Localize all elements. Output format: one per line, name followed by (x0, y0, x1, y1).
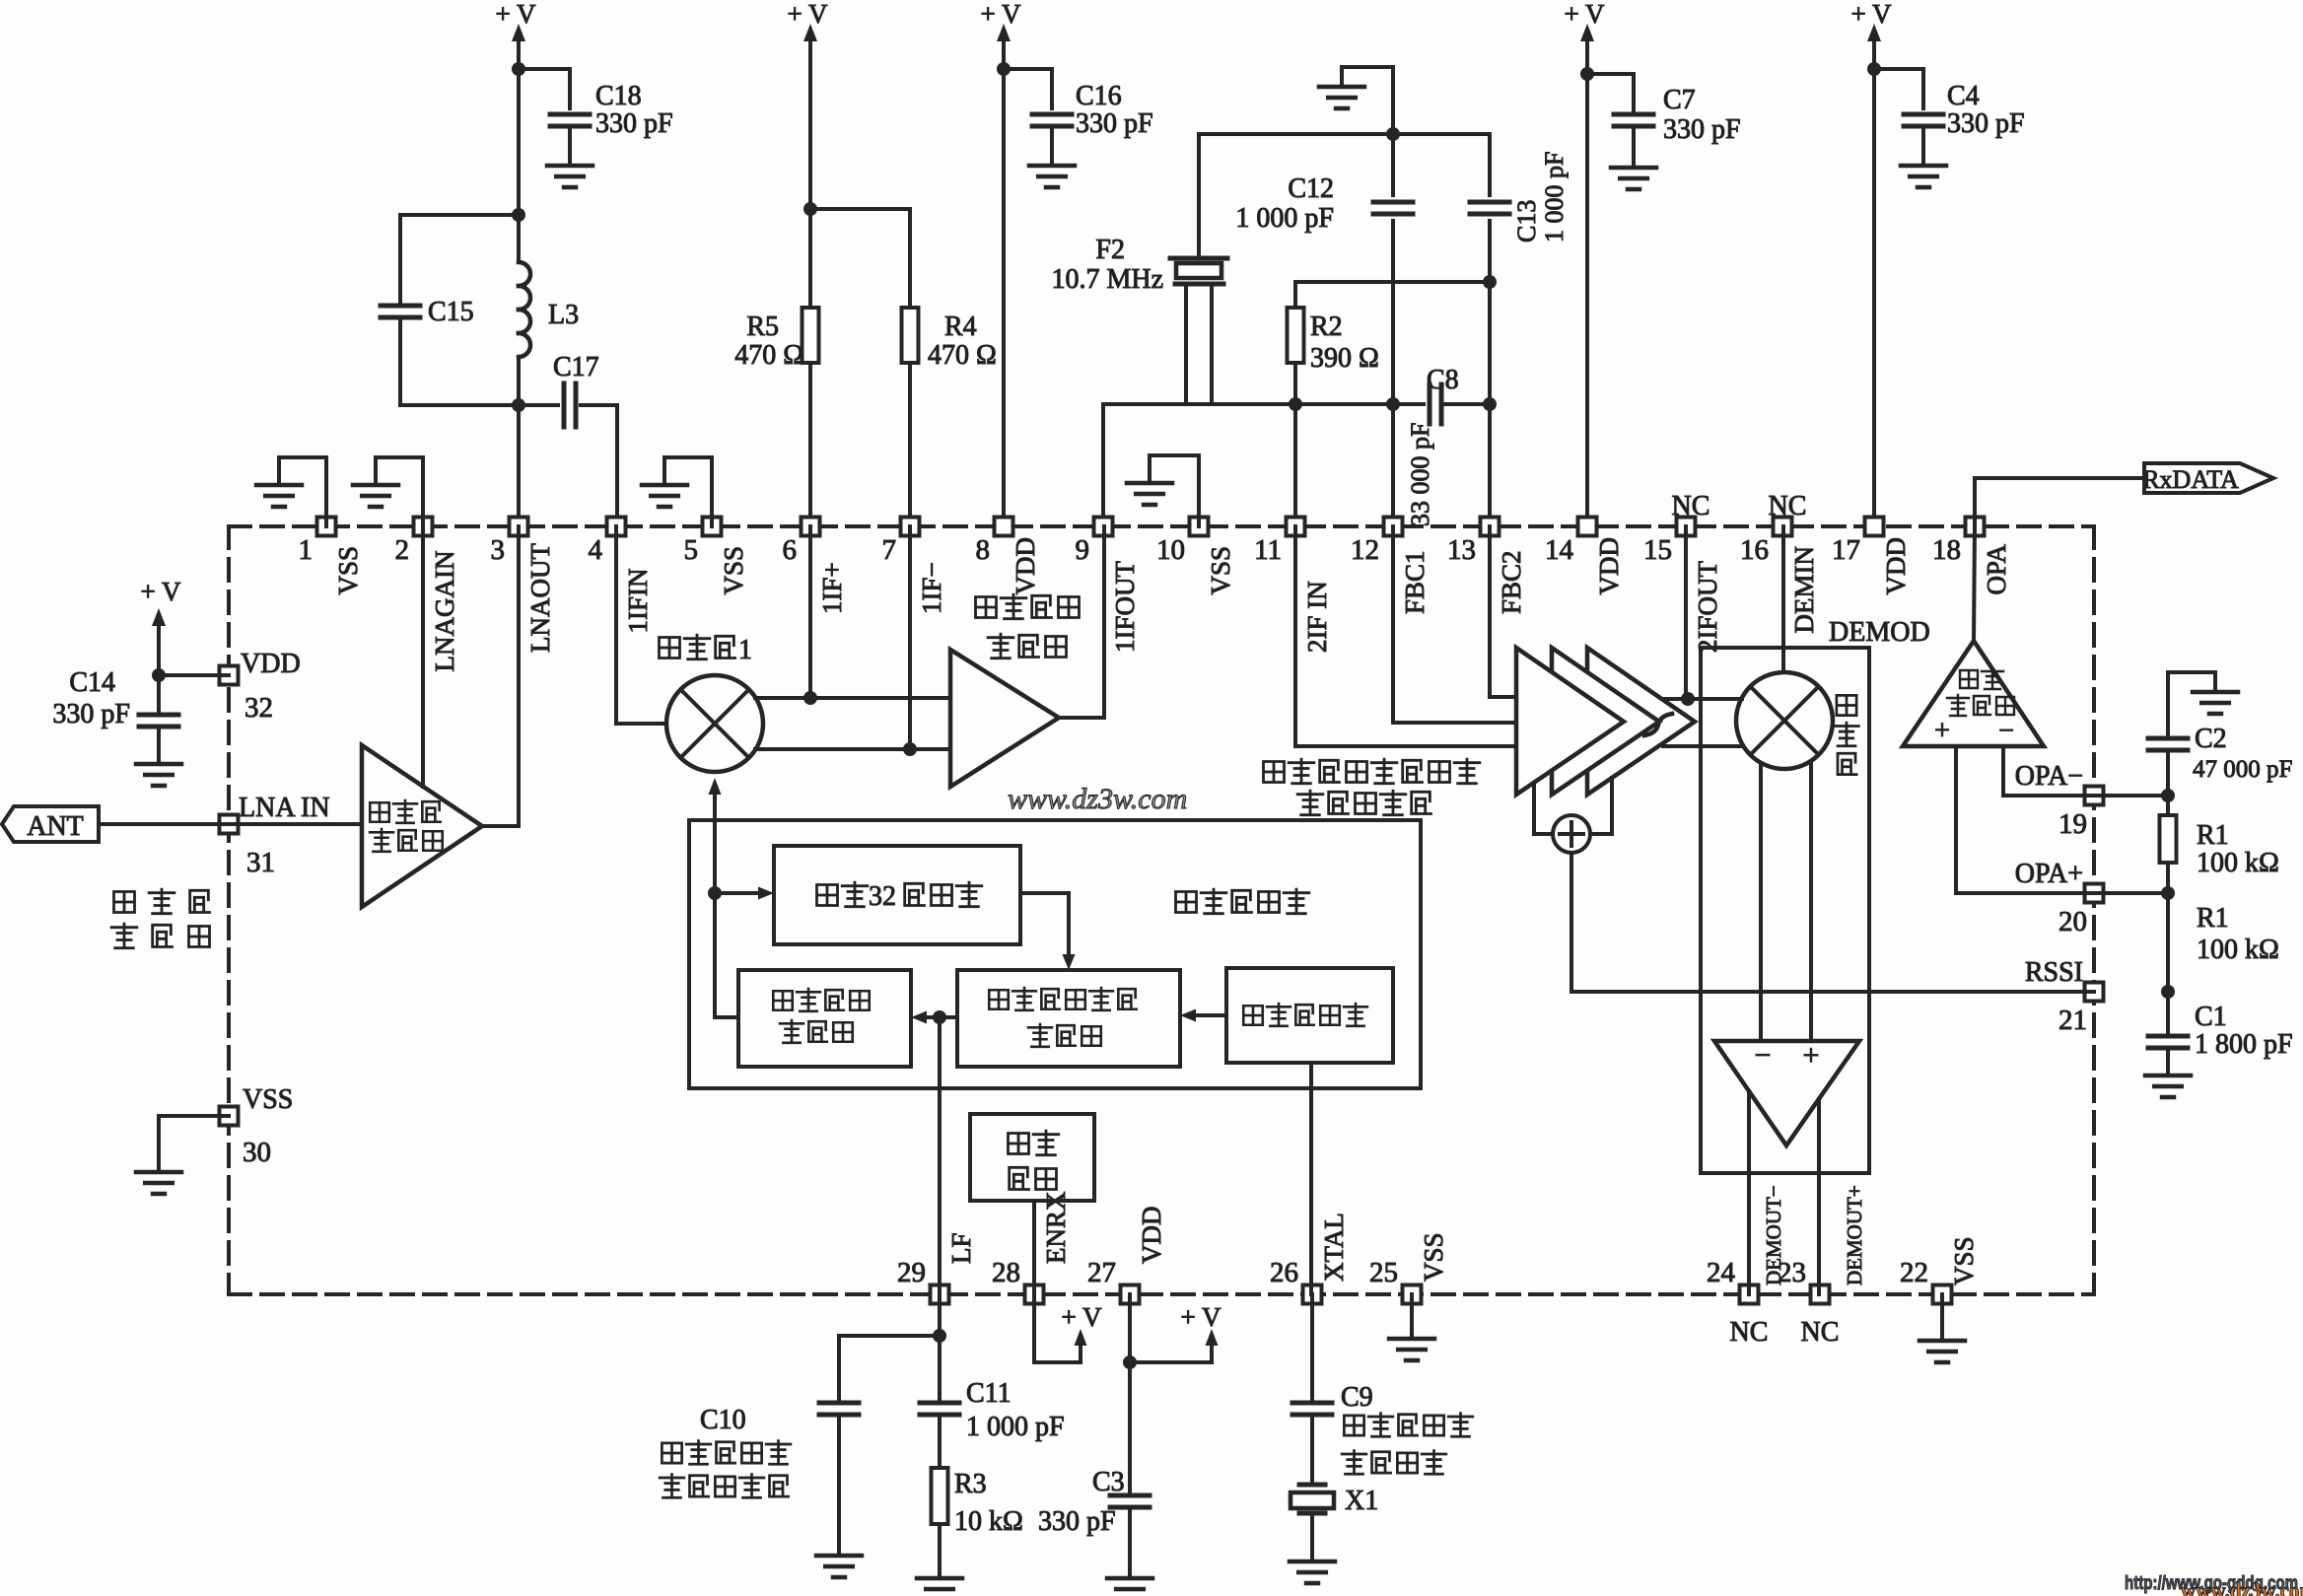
svg-text:DEMOUT+: DEMOUT+ (1843, 1185, 1866, 1285)
svg-text:330 pF: 330 pF (1038, 1506, 1116, 1537)
svg-text:10 kΩ: 10 kΩ (954, 1506, 1023, 1537)
svg-text:1IF−: 1IF− (917, 562, 946, 614)
svg-text:17: 17 (1832, 534, 1860, 566)
svg-text:+: + (1803, 1039, 1820, 1072)
svg-text:VDD: VDD (1881, 537, 1911, 595)
svg-text:C4: C4 (1947, 81, 1980, 111)
svg-text:10: 10 (1156, 534, 1185, 566)
svg-text:1: 1 (738, 635, 752, 665)
svg-text:330 pF: 330 pF (1663, 114, 1741, 145)
svg-text:+ V: + V (1181, 1302, 1221, 1332)
svg-text:+ V: + V (1062, 1302, 1102, 1332)
svg-text:330 pF: 330 pF (1076, 108, 1153, 139)
svg-text:25: 25 (1369, 1257, 1398, 1288)
svg-text:DEMOUT−: DEMOUT− (1762, 1185, 1785, 1285)
svg-text:ANT: ANT (27, 811, 84, 842)
svg-text:32: 32 (244, 692, 273, 724)
svg-text:OPA−: OPA− (2015, 761, 2083, 792)
svg-text:R4: R4 (944, 312, 977, 342)
svg-text:7: 7 (882, 534, 897, 566)
svg-text:+ V: + V (1565, 0, 1605, 29)
svg-text:100 kΩ: 100 kΩ (2197, 848, 2279, 878)
svg-text:+ V: + V (1851, 0, 1892, 29)
svg-text:LNAGAIN: LNAGAIN (430, 551, 459, 672)
svg-text:+ V: + V (141, 577, 181, 606)
svg-text:20: 20 (2059, 906, 2087, 937)
svg-text:47 000 pF: 47 000 pF (2193, 756, 2292, 783)
svg-text:NC: NC (1801, 1317, 1840, 1348)
svg-text:−: − (1998, 716, 2014, 746)
svg-text:C16: C16 (1076, 81, 1122, 111)
svg-text:VDD: VDD (1137, 1207, 1166, 1265)
svg-text:18: 18 (1932, 534, 1961, 566)
svg-text:RxDATA: RxDATA (2142, 465, 2239, 494)
svg-text:+: + (1934, 716, 1950, 746)
svg-text:26: 26 (1270, 1257, 1298, 1288)
svg-text:OPA: OPA (1982, 543, 2011, 594)
svg-text:C1: C1 (2195, 1002, 2227, 1032)
svg-text:LNAOUT: LNAOUT (525, 543, 555, 653)
svg-text:330 pF: 330 pF (52, 699, 130, 729)
svg-text:VSS: VSS (243, 1084, 293, 1115)
svg-text:5: 5 (684, 534, 699, 566)
svg-text:28: 28 (992, 1257, 1020, 1288)
svg-text:24: 24 (1707, 1257, 1736, 1288)
svg-text:9: 9 (1076, 534, 1090, 566)
svg-text:1 800 pF: 1 800 pF (2195, 1029, 2293, 1060)
svg-text:33 000 pF: 33 000 pF (1406, 423, 1434, 526)
svg-text:+ V: + V (496, 0, 536, 29)
svg-text:+ V: + V (788, 0, 828, 29)
svg-text:C9: C9 (1341, 1382, 1373, 1413)
svg-text:www.dz3w.com: www.dz3w.com (2181, 1578, 2303, 1596)
svg-text:10.7 MHz: 10.7 MHz (1051, 264, 1163, 295)
svg-text:C2: C2 (2195, 724, 2227, 754)
svg-text:2: 2 (395, 534, 410, 566)
svg-text:www.dz3w.com: www.dz3w.com (1008, 783, 1187, 815)
svg-text:+ V: + V (981, 0, 1021, 29)
svg-text:1IF+: 1IF+ (817, 562, 847, 614)
svg-text:16: 16 (1740, 534, 1769, 566)
svg-text:XTAL: XTAL (1319, 1213, 1349, 1282)
svg-text:12: 12 (1351, 534, 1379, 566)
svg-text:C15: C15 (428, 297, 474, 327)
svg-text:C10: C10 (700, 1405, 746, 1435)
svg-text:VSS: VSS (1206, 546, 1235, 595)
svg-text:14: 14 (1545, 534, 1574, 566)
svg-text:C7: C7 (1663, 85, 1696, 115)
svg-text:2IF IN: 2IF IN (1302, 581, 1332, 653)
svg-text:1 000 pF: 1 000 pF (966, 1412, 1065, 1442)
svg-text:NC: NC (1730, 1317, 1769, 1348)
svg-text:330 pF: 330 pF (1947, 108, 2025, 139)
svg-text:C13: C13 (1512, 200, 1541, 243)
svg-text:NC: NC (1769, 491, 1807, 521)
svg-text:30: 30 (243, 1137, 271, 1168)
svg-text:C8: C8 (1427, 365, 1459, 395)
svg-text:1 000 pF: 1 000 pF (1540, 152, 1569, 243)
svg-text:X1: X1 (1345, 1486, 1378, 1516)
svg-text:R3: R3 (954, 1469, 987, 1499)
svg-text:470 Ω: 470 Ω (928, 340, 997, 371)
svg-text:C11: C11 (966, 1378, 1012, 1409)
svg-text:R1: R1 (2197, 903, 2229, 934)
svg-text:R2: R2 (1310, 312, 1343, 342)
svg-text:27: 27 (1087, 1257, 1116, 1288)
svg-text:13: 13 (1447, 534, 1476, 566)
svg-text:330 pF: 330 pF (595, 108, 673, 139)
svg-text:1 000 pF: 1 000 pF (1235, 203, 1334, 234)
svg-text:NC: NC (1672, 491, 1710, 521)
svg-text:C17: C17 (553, 352, 599, 382)
svg-text:R1: R1 (2197, 820, 2229, 851)
svg-text:22: 22 (1900, 1257, 1928, 1288)
svg-text:RSSI: RSSI (2025, 957, 2083, 988)
svg-text:21: 21 (2059, 1005, 2087, 1036)
svg-text:L3: L3 (548, 300, 579, 330)
svg-text:FBC1: FBC1 (1400, 550, 1430, 614)
svg-text:4: 4 (589, 534, 603, 566)
svg-text:F2: F2 (1095, 235, 1125, 265)
svg-text:11: 11 (1254, 534, 1282, 566)
svg-text:VSS: VSS (333, 546, 363, 595)
svg-text:VDD: VDD (1594, 537, 1624, 595)
svg-text:3: 3 (491, 534, 506, 566)
svg-text:6: 6 (783, 534, 798, 566)
svg-text:C18: C18 (595, 81, 642, 111)
svg-text:32: 32 (869, 881, 896, 912)
svg-text:VSS: VSS (719, 546, 748, 595)
svg-text:8: 8 (976, 534, 991, 566)
svg-text:C12: C12 (1288, 173, 1334, 204)
svg-text:15: 15 (1643, 534, 1672, 566)
svg-text:19: 19 (2059, 808, 2087, 840)
svg-text:DEMOD: DEMOD (1829, 617, 1930, 648)
svg-text:VSS: VSS (1419, 1232, 1448, 1282)
svg-text:OPA+: OPA+ (2015, 859, 2083, 889)
svg-text:DEMIN: DEMIN (1789, 546, 1819, 634)
svg-text:1IFOUT: 1IFOUT (1110, 560, 1140, 653)
svg-text:LF: LF (946, 1232, 976, 1264)
svg-text:2IFOUT: 2IFOUT (1693, 560, 1722, 653)
svg-text:390 Ω: 390 Ω (1310, 343, 1379, 374)
svg-text:VDD: VDD (241, 649, 301, 679)
svg-text:−: − (1755, 1039, 1772, 1072)
svg-text:100 kΩ: 100 kΩ (2197, 935, 2279, 965)
svg-text:C14: C14 (69, 667, 115, 698)
svg-text:1IFIN: 1IFIN (623, 569, 653, 634)
svg-text:1: 1 (299, 534, 314, 566)
svg-text:FBC2: FBC2 (1497, 550, 1526, 614)
svg-text:VSS: VSS (1949, 1236, 1979, 1285)
svg-text:LNA IN: LNA IN (239, 793, 330, 823)
svg-text:VDD: VDD (1011, 537, 1040, 595)
svg-text:470 Ω: 470 Ω (734, 340, 803, 371)
svg-text:C3: C3 (1092, 1467, 1125, 1497)
svg-text:29: 29 (897, 1257, 926, 1288)
svg-text:31: 31 (246, 847, 275, 878)
svg-text:R5: R5 (746, 312, 779, 342)
